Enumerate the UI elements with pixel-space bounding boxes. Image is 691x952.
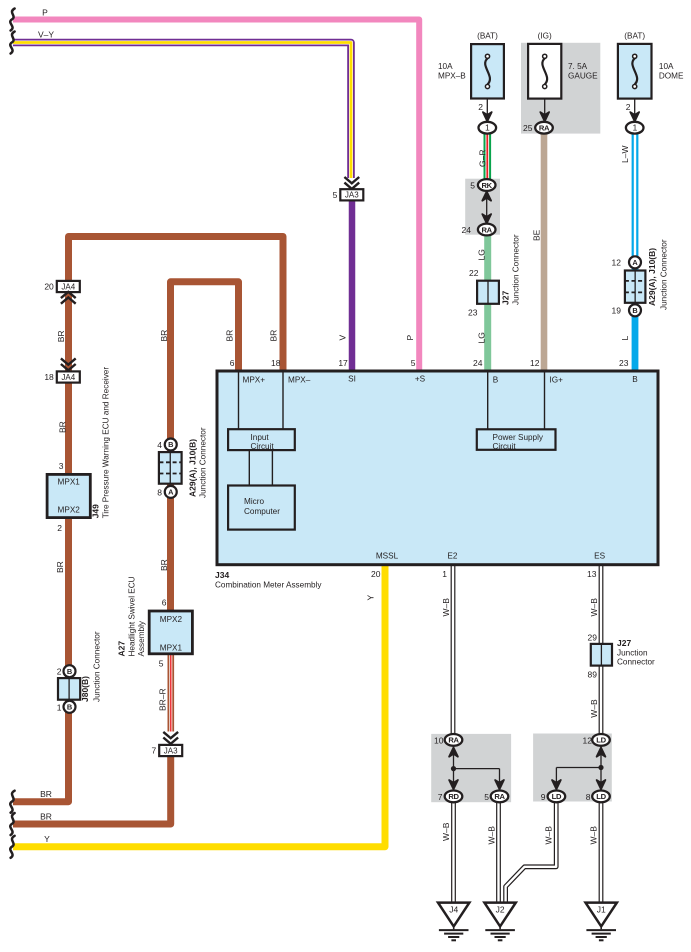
wire W-B from LD connector 9 jogging to ground J2 bbox=[506, 802, 557, 903]
svg-text:V: V bbox=[338, 335, 348, 341]
svg-text:BR: BR bbox=[40, 789, 52, 799]
svg-text:BR: BR bbox=[57, 421, 67, 433]
svg-text:2: 2 bbox=[57, 523, 62, 533]
svg-text:LD: LD bbox=[596, 736, 606, 745]
svg-text:5: 5 bbox=[333, 190, 338, 200]
svg-text:JA3: JA3 bbox=[345, 191, 359, 200]
svg-text:J27: J27 bbox=[501, 291, 511, 305]
svg-text:V–Y: V–Y bbox=[38, 30, 54, 40]
junction node and branch (ES side) bbox=[556, 767, 601, 769]
svg-text:+S: +S bbox=[415, 375, 426, 384]
junction JA3 pin 5 bbox=[344, 177, 359, 183]
svg-text:20: 20 bbox=[44, 282, 54, 292]
svg-text:RK: RK bbox=[482, 181, 493, 190]
svg-text:23: 23 bbox=[468, 308, 478, 318]
svg-text:2: 2 bbox=[478, 102, 483, 112]
svg-text:J80(B): J80(B) bbox=[80, 676, 90, 702]
svg-text:20: 20 bbox=[371, 569, 381, 579]
svg-text:RA: RA bbox=[539, 124, 550, 133]
svg-text:J49: J49 bbox=[91, 504, 101, 518]
svg-text:2: 2 bbox=[626, 102, 631, 112]
svg-text:Circuit: Circuit bbox=[493, 442, 517, 451]
svg-text:Y: Y bbox=[366, 595, 376, 601]
break symbol on wire Y bbox=[10, 836, 14, 858]
svg-text:JA3: JA3 bbox=[164, 746, 178, 755]
svg-text:JA4: JA4 bbox=[61, 282, 75, 291]
svg-text:18: 18 bbox=[271, 358, 281, 368]
svg-text:RD: RD bbox=[448, 792, 459, 801]
wire BR loop J49 side: MPX- pin 18 up across and down to JA4 bbox=[69, 237, 284, 373]
svg-text:BR: BR bbox=[159, 559, 169, 571]
svg-text:A: A bbox=[632, 258, 638, 267]
internal line pin 24 to Power Supply Circuit bbox=[487, 372, 489, 429]
fuse 10A MPX-B (BAT) bbox=[471, 44, 504, 98]
svg-text:JA4: JA4 bbox=[61, 373, 75, 382]
svg-text:6: 6 bbox=[162, 598, 167, 608]
svg-text:23: 23 bbox=[619, 358, 629, 368]
connector RD pin 7 bbox=[449, 780, 458, 789]
svg-text:W–B: W–B bbox=[487, 826, 497, 845]
svg-text:P: P bbox=[405, 335, 415, 341]
svg-text:ES: ES bbox=[594, 552, 605, 561]
connector LD pin 12 bbox=[600, 746, 602, 790]
wire G-R (green/red) fuse MPX-B to RK connector bbox=[483, 133, 491, 180]
svg-text:MPX–: MPX– bbox=[288, 376, 311, 385]
svg-text:Junction: Junction bbox=[617, 648, 648, 657]
svg-text:B: B bbox=[493, 376, 499, 385]
svg-text:B: B bbox=[632, 306, 637, 315]
wire BR J49 pin 2 down through J80 to left edge bbox=[13, 519, 69, 802]
svg-text:24: 24 bbox=[462, 225, 472, 235]
svg-text:G–R: G–R bbox=[478, 150, 488, 167]
svg-text:7: 7 bbox=[438, 792, 443, 802]
wire BE (beige) GAUGE fuse RA to IG+ pin 12 bbox=[541, 133, 548, 372]
svg-text:GAUGE: GAUGE bbox=[568, 72, 598, 81]
svg-text:B: B bbox=[168, 440, 173, 449]
svg-text:BR: BR bbox=[159, 330, 169, 342]
svg-text:Computer: Computer bbox=[244, 507, 280, 516]
wire BR JA4 to J49 pin 3 bbox=[65, 382, 72, 474]
svg-text:W–B: W–B bbox=[589, 598, 599, 617]
gray panel around RK/RA connectors bbox=[465, 179, 500, 235]
svg-text:RA: RA bbox=[494, 792, 505, 801]
wire P (pink) from left edge to +S pin 5 bbox=[13, 20, 419, 373]
connector LD pin 8 bbox=[597, 780, 606, 789]
ECU A27 Headlight Swivel ECU Assembly bbox=[149, 611, 192, 654]
svg-text:7. 5A: 7. 5A bbox=[568, 62, 588, 71]
wire W-B from RD connector 7 to ground J4 bbox=[451, 802, 456, 903]
fuse lead MPX-B to connector 1 bbox=[486, 98, 488, 122]
svg-text:LG: LG bbox=[477, 249, 487, 260]
svg-text:(BAT): (BAT) bbox=[624, 31, 645, 40]
svg-text:2: 2 bbox=[57, 667, 62, 677]
connector RA pin 25 bbox=[535, 122, 553, 134]
svg-text:BE: BE bbox=[532, 229, 542, 241]
svg-text:B: B bbox=[632, 375, 638, 384]
svg-text:SI: SI bbox=[348, 375, 356, 384]
wire V-Y (violet/yellow) from left edge to JA3 bbox=[13, 43, 351, 179]
svg-text:W–B: W–B bbox=[441, 822, 451, 841]
svg-text:Power Supply: Power Supply bbox=[493, 433, 544, 442]
break symbol on wire V-Y bbox=[10, 32, 14, 54]
svg-text:(BAT): (BAT) bbox=[477, 31, 498, 40]
ECU J49 Tire Pressure Warning ECU and Receiver bbox=[47, 474, 90, 517]
wire V (violet) JA3 to SI pin 17 bbox=[349, 200, 356, 373]
svg-text:LD: LD bbox=[596, 792, 606, 801]
wire W-B from ES pin 13 through J27 to LD connector 12 bbox=[599, 564, 604, 734]
ground J1 bbox=[586, 903, 617, 927]
break symbol on wire P bbox=[10, 9, 14, 31]
svg-text:25: 25 bbox=[523, 123, 533, 133]
svg-text:Micro: Micro bbox=[244, 497, 264, 506]
connector RA pin 10 bbox=[453, 746, 455, 790]
svg-text:89: 89 bbox=[588, 670, 598, 680]
svg-text:W–B: W–B bbox=[589, 699, 599, 718]
svg-text:IG+: IG+ bbox=[550, 376, 564, 385]
svg-text:24: 24 bbox=[473, 358, 483, 368]
ground J2 bbox=[484, 903, 515, 927]
svg-text:L–W: L–W bbox=[620, 146, 630, 163]
svg-text:P: P bbox=[42, 7, 48, 17]
connector RK pin 5 bbox=[486, 190, 488, 224]
connector 1 below DOME fuse bbox=[626, 122, 644, 134]
svg-text:L: L bbox=[620, 336, 630, 341]
svg-text:Combination Meter Assembly: Combination Meter Assembly bbox=[215, 581, 322, 590]
ground J4 bbox=[438, 903, 469, 927]
svg-text:B: B bbox=[67, 667, 72, 676]
junction JA4 pin 20 bbox=[57, 281, 80, 292]
svg-text:BR: BR bbox=[40, 812, 52, 822]
svg-text:6: 6 bbox=[230, 358, 235, 368]
wire W-B from RA connector 5 to ground J2 bbox=[496, 802, 501, 903]
gray panel around GAUGE fuse bbox=[521, 43, 600, 134]
svg-text:LG: LG bbox=[477, 332, 487, 343]
svg-text:LD: LD bbox=[552, 792, 562, 801]
svg-text:Junction Connector: Junction Connector bbox=[199, 427, 208, 498]
wire BR loop A27 side: MPX+ pin 6 up across and down to A27 pin 6 bbox=[171, 282, 239, 610]
svg-text:5: 5 bbox=[470, 181, 475, 191]
svg-text:12: 12 bbox=[530, 358, 540, 368]
fuse lead DOME to connector 1 bbox=[634, 98, 636, 122]
svg-text:J34: J34 bbox=[215, 570, 229, 580]
svg-text:B: B bbox=[67, 703, 72, 712]
junction connector A29(A) J10(B) on DOME line bbox=[629, 256, 641, 268]
internal line pin 6 to Input Circuit bbox=[238, 372, 240, 429]
svg-text:8: 8 bbox=[586, 792, 591, 802]
svg-text:22: 22 bbox=[469, 268, 479, 278]
svg-text:10: 10 bbox=[434, 735, 444, 745]
wire W-B from LD connector 8 to ground J1 bbox=[599, 802, 604, 903]
svg-text:J27: J27 bbox=[617, 638, 631, 648]
svg-text:A: A bbox=[168, 488, 174, 497]
svg-text:5: 5 bbox=[159, 659, 164, 669]
internal box Input Circuit bbox=[228, 429, 295, 450]
svg-text:5: 5 bbox=[484, 792, 489, 802]
wire W-B from E2 pin 1 to RA connector 10 bbox=[451, 564, 456, 735]
svg-text:Junction Connector: Junction Connector bbox=[512, 234, 521, 305]
svg-text:1: 1 bbox=[632, 123, 637, 133]
svg-text:1: 1 bbox=[485, 123, 490, 133]
wire BR between JA4 connectors bbox=[65, 292, 72, 372]
svg-text:J4: J4 bbox=[449, 905, 458, 915]
connector LD pin 9 bbox=[552, 780, 561, 789]
svg-text:8: 8 bbox=[157, 487, 162, 497]
fuse 10A DOME (BAT) bbox=[618, 44, 652, 99]
internal box Micro Computer bbox=[228, 486, 295, 530]
connector RA pin 24 bbox=[478, 224, 496, 236]
wire Y (yellow) MSSL pin 20 down to left edge bbox=[13, 564, 385, 847]
svg-text:E2: E2 bbox=[447, 552, 457, 561]
svg-text:Junction Connector: Junction Connector bbox=[93, 631, 102, 702]
break symbol on lower wire BR (JA3 side) bbox=[10, 813, 14, 835]
wire BR JA3 pin 7 down to left edge bbox=[13, 757, 171, 825]
svg-text:19: 19 bbox=[612, 306, 622, 316]
svg-text:J2: J2 bbox=[496, 905, 505, 915]
wire L-W (blue/white) fuse DOME to junction A bbox=[632, 133, 639, 258]
svg-text:1: 1 bbox=[57, 702, 62, 712]
junction JA3 pin 7 bbox=[163, 732, 178, 738]
svg-text:BR: BR bbox=[225, 330, 235, 342]
svg-text:Tire Pressure Warning ECU and: Tire Pressure Warning ECU and Receiver bbox=[102, 367, 111, 519]
svg-text:3: 3 bbox=[59, 461, 64, 471]
svg-text:9: 9 bbox=[541, 792, 546, 802]
svg-text:W–B: W–B bbox=[588, 826, 598, 845]
connector 1 below MPX-B fuse bbox=[479, 122, 497, 134]
svg-text:4: 4 bbox=[157, 440, 162, 450]
wire BR-R (brown/red) A27 pin 5 to JA3 bbox=[168, 655, 175, 732]
svg-text:RA: RA bbox=[482, 225, 493, 234]
svg-text:MPX1: MPX1 bbox=[58, 478, 81, 487]
junction connector J27 (LG line) bbox=[477, 281, 499, 304]
svg-text:10A: 10A bbox=[659, 62, 674, 71]
svg-text:17: 17 bbox=[338, 358, 348, 368]
connector RA pin 5 bbox=[495, 780, 504, 789]
break symbol on lower wire BR (J80 side) bbox=[10, 791, 14, 813]
svg-text:BR: BR bbox=[269, 330, 279, 342]
svg-text:Input: Input bbox=[251, 433, 270, 442]
internal line pin 18 to Input Circuit bbox=[282, 372, 284, 429]
wire LG (light green) RA connector to B pin 24 bbox=[484, 234, 491, 372]
junction connector J80(B) bbox=[64, 665, 76, 677]
internal lines Input Circuit to Micro Computer bbox=[248, 450, 250, 486]
svg-text:BR–R: BR–R bbox=[158, 688, 168, 711]
svg-text:MPX2: MPX2 bbox=[160, 615, 183, 624]
junction JA4 pin 18 bbox=[61, 358, 76, 364]
svg-text:12: 12 bbox=[583, 735, 593, 745]
svg-text:Junction Connector: Junction Connector bbox=[660, 239, 669, 310]
svg-text:A29(A), J10(B): A29(A), J10(B) bbox=[647, 248, 657, 306]
svg-text:MPX+: MPX+ bbox=[243, 376, 266, 385]
svg-text:BR: BR bbox=[56, 330, 66, 342]
svg-text:W–B: W–B bbox=[544, 826, 554, 845]
svg-text:RA: RA bbox=[448, 736, 459, 745]
svg-text:W–B: W–B bbox=[441, 598, 451, 617]
svg-text:7: 7 bbox=[151, 746, 156, 756]
fuse 7.5A GAUGE (IG) bbox=[528, 44, 561, 99]
svg-text:BR: BR bbox=[55, 561, 65, 573]
junction node and branch (E2 side) bbox=[454, 768, 500, 770]
svg-text:10A: 10A bbox=[438, 62, 453, 71]
svg-text:12: 12 bbox=[612, 258, 622, 268]
svg-text:Assembly: Assembly bbox=[137, 620, 146, 656]
svg-text:MPX1: MPX1 bbox=[160, 644, 183, 653]
svg-text:1: 1 bbox=[442, 569, 447, 579]
svg-text:5: 5 bbox=[411, 358, 416, 368]
ECU J34 Combination Meter Assembly box bbox=[217, 371, 658, 565]
wire L (blue) junction B to B pin 23 bbox=[632, 267, 639, 372]
svg-text:(IG): (IG) bbox=[538, 31, 552, 40]
internal box Power Supply Circuit bbox=[477, 429, 556, 450]
svg-text:J1: J1 bbox=[597, 905, 606, 915]
svg-text:18: 18 bbox=[44, 372, 54, 382]
junction connector J27 on ES line bbox=[591, 644, 612, 666]
svg-text:29: 29 bbox=[588, 633, 598, 643]
internal line pin 12 to Power Supply Circuit bbox=[544, 372, 546, 429]
junction connector A29(A) J10(B) on A27 line bbox=[165, 439, 177, 451]
fuse lead GAUGE to connector RA 25 bbox=[544, 98, 546, 121]
svg-text:DOME: DOME bbox=[659, 72, 684, 81]
gray panel around RA/RD/RA connectors (E2 side) bbox=[431, 734, 511, 802]
svg-text:A29(A), J10(B): A29(A), J10(B) bbox=[188, 439, 198, 497]
svg-text:Circuit: Circuit bbox=[251, 442, 275, 451]
svg-text:MSSL: MSSL bbox=[376, 552, 399, 561]
svg-text:A27: A27 bbox=[117, 641, 127, 657]
svg-text:MPX–B: MPX–B bbox=[438, 72, 466, 81]
svg-text:Y: Y bbox=[44, 834, 50, 844]
svg-text:Headlight Swivel ECU: Headlight Swivel ECU bbox=[128, 576, 137, 656]
gray panel around LD connectors (ES side) bbox=[533, 734, 612, 802]
svg-text:13: 13 bbox=[587, 569, 597, 579]
svg-text:MPX2: MPX2 bbox=[58, 506, 81, 515]
svg-text:Connector: Connector bbox=[617, 658, 655, 667]
